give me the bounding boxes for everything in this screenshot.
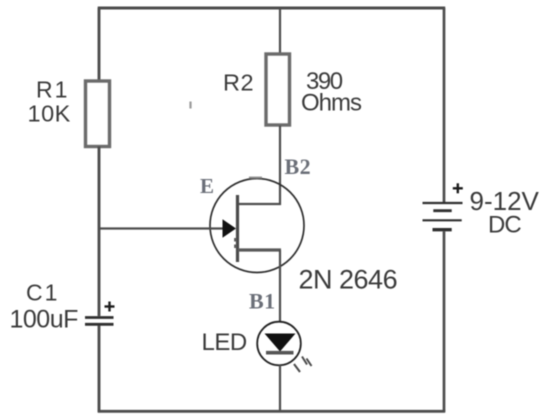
wire middle rail upper — [279, 8, 281, 54]
transistor Q1 2N2646 circle — [210, 179, 304, 273]
svg-text:10K: 10K — [28, 101, 71, 127]
resistor R1 — [86, 81, 110, 147]
wire middle rail to B2 — [279, 126, 281, 206]
wire right rail upper — [443, 8, 446, 203]
wire left rail middle — [98, 147, 101, 317]
svg-text:Ohms: Ohms — [301, 90, 362, 117]
wire middle rail B1 to LED — [279, 250, 281, 322]
battery BT1 9-12V — [423, 183, 463, 229]
wire B1 lead — [238, 248, 281, 251]
wire right rail lower — [443, 232, 446, 413]
capacitor C1 — [85, 302, 115, 325]
svg-text:2N 2646: 2N 2646 — [299, 265, 398, 295]
wire bottom rail — [98, 410, 446, 413]
flat dash on circle top — [249, 177, 262, 179]
wire left rail lower — [98, 326, 101, 413]
svg-text:LED: LED — [202, 329, 247, 356]
svg-text:R1: R1 — [36, 77, 69, 103]
svg-text:100uF: 100uF — [10, 306, 79, 334]
LED cathode bar — [266, 351, 294, 355]
LED triangle — [265, 334, 296, 352]
stray tick mark — [189, 102, 191, 109]
svg-text:B1: B1 — [249, 289, 276, 314]
LED circle — [257, 322, 301, 366]
wire LED to bottom — [279, 365, 281, 412]
svg-text:C1: C1 — [26, 280, 59, 306]
svg-text:DC: DC — [488, 212, 521, 239]
emitter wire — [99, 227, 224, 229]
transistor base bar — [236, 195, 239, 262]
emitter arrowhead — [223, 219, 237, 237]
LED rays — [294, 357, 312, 373]
svg-text:E: E — [200, 174, 214, 198]
wire B2 lead — [238, 203, 281, 205]
svg-text:R2: R2 — [223, 70, 254, 96]
base bar dashes — [234, 238, 236, 248]
svg-text:B2: B2 — [285, 154, 312, 179]
wire left rail upper — [98, 8, 101, 81]
resistor R2 — [266, 54, 290, 125]
wire top rail — [98, 7, 446, 10]
